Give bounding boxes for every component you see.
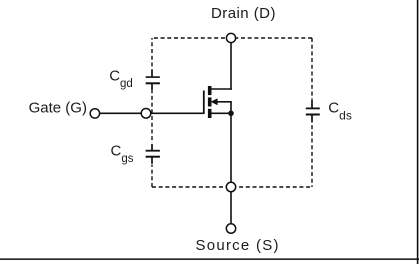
wire: gate lead from terminal to MOSFET gate: [96, 112, 204, 114]
node: drain terminal (open circle): [226, 33, 235, 42]
capacitor Cds upper lead stub: [311, 99, 313, 108]
white mask for capacitor Cgd body: [148, 69, 156, 91]
capacitor Cds lower lead stub: [311, 115, 313, 123]
svg-text:Source (S): Source (S): [196, 237, 280, 254]
transistor Q1 channel bar (body segment): [208, 97, 212, 106]
transistor Q1 channel bar (drain segment): [208, 86, 212, 95]
capacitor Cds top plate: [306, 107, 320, 109]
page border: right edge rule: [417, 0, 419, 264]
node: source junction on boundary (open circle): [226, 182, 235, 191]
node: gate terminal (open circle): [90, 109, 99, 118]
capacitor Cgs lower lead stub: [151, 157, 153, 164]
wire: body vertical drop to source node: [230, 102, 232, 114]
node: gate junction on boundary (open circle): [141, 109, 151, 119]
page border: bottom edge rule: [0, 258, 419, 260]
capacitor Cgd upper lead stub: [151, 69, 153, 77]
junction dot: body-source connection: [228, 111, 234, 117]
white mask for capacitor Cds body: [308, 99, 316, 123]
capacitor Cds bottom plate: [306, 114, 320, 116]
capacitor Cgd top plate: [146, 76, 160, 78]
wire: drain vertical riser up to drain terminal: [230, 38, 232, 90]
dashed boundary box: top edge: [152, 37, 312, 39]
wire: body horizontal lead from arrow to right: [216, 101, 232, 103]
capacitor Cgs top plate: [146, 150, 160, 152]
svg-text:Gate (G): Gate (G): [29, 99, 87, 116]
capacitor Cgs upper lead stub: [151, 144, 153, 151]
capacitor Cgd lower lead stub: [151, 83, 153, 90]
white mask for capacitor Cgs body: [148, 143, 156, 165]
dashed boundary box: bottom edge: [152, 186, 312, 188]
transistor Q1 channel bar (source segment): [208, 109, 212, 118]
dashed boundary box: left edge: [151, 38, 153, 187]
transistor Q1 gate bar: [203, 91, 205, 115]
capacitor Cgs bottom plate: [146, 156, 160, 158]
node: source terminal (open circle): [226, 224, 235, 233]
capacitor Cgd bottom plate: [146, 82, 160, 84]
wire: source horizontal lead from channel to source node: [211, 112, 232, 114]
svg-text:Drain (D): Drain (D): [211, 5, 276, 22]
wire: drain horizontal lead from channel to vertical riser: [211, 88, 232, 90]
dashed boundary box: right edge: [311, 38, 313, 187]
transistor Q1 body arrow (pointing to channel): [211, 98, 218, 105]
wire: source vertical run down to source terminal: [230, 113, 232, 228]
